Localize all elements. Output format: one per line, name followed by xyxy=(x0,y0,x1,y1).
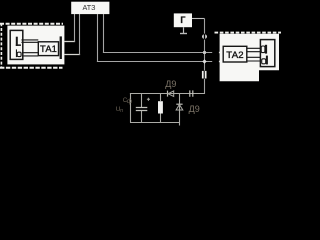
plus sign of Cf xyxy=(147,98,150,101)
wire pair microphone to TA1 box xyxy=(22,53,38,56)
diode D9 horizontal: triangle xyxy=(168,91,174,97)
G right lead xyxy=(192,18,205,20)
power tap circuit: bottom wire xyxy=(130,122,180,124)
microphone loop (TA2) xyxy=(262,59,266,64)
resistor top lead xyxy=(160,94,162,102)
svg-text:ф: ф xyxy=(127,98,132,105)
diode D9 vertical: cathode bar xyxy=(176,103,182,105)
microphone bar (TA1) xyxy=(16,49,17,57)
resistor (white box) xyxy=(158,101,163,113)
microphone loop (TA1) xyxy=(17,52,21,56)
handset symbol box (TA1) xyxy=(10,30,23,59)
telephone set TA1 white panel xyxy=(7,26,64,65)
line B horizontal xyxy=(97,61,212,63)
stub into TA2 upper xyxy=(221,52,224,54)
resistor bottom lead xyxy=(160,114,162,123)
diode D9 vertical: triangle xyxy=(176,105,183,111)
svg-text:Д9: Д9 xyxy=(189,104,200,114)
earpiece bar (TA1) xyxy=(16,37,18,46)
wire stub TA1 lower xyxy=(64,54,80,56)
fuse rectangle on bus xyxy=(202,71,207,79)
wire pair earpiece to TA1 box xyxy=(21,40,38,42)
earpiece bar (TA2) xyxy=(265,45,267,54)
wire 1 vertical xyxy=(74,14,76,42)
diode D9 vertical branch wire xyxy=(179,94,181,126)
wire nub at TA2 panel edge lower xyxy=(219,61,221,63)
node TA1 enclosure dashed marquee bottom xyxy=(0,67,63,69)
svg-text:Г: Г xyxy=(180,15,185,25)
node TA1 enclosure dashed marquee left xyxy=(0,23,2,68)
wire stub TA1 upper xyxy=(64,41,75,43)
telephone set TA2 white panel xyxy=(220,34,279,82)
spark gap on bus xyxy=(202,34,207,39)
plate bar right of TA1 xyxy=(60,36,62,59)
junction diamond B on bus xyxy=(202,59,206,63)
block G (generator) xyxy=(174,13,192,27)
block TA1 xyxy=(38,42,58,56)
svg-text:АТЗ: АТЗ xyxy=(83,3,96,12)
svg-text:п: п xyxy=(120,108,123,114)
power tap circuit: left vertical xyxy=(130,94,132,123)
handset symbol box (TA2) xyxy=(260,40,274,67)
stub into TA2 lower xyxy=(221,61,224,63)
svg-text:Д9: Д9 xyxy=(165,79,176,89)
capacitor Cf bottom lead xyxy=(141,111,143,123)
wire nub at TA2 panel edge upper xyxy=(219,52,221,54)
capacitor Cf plates xyxy=(136,108,148,111)
G bottom terminal lead xyxy=(183,27,185,33)
wire 4 vertical xyxy=(103,14,105,53)
earpiece loop (TA2) xyxy=(261,46,265,53)
series capacitor bars on top wire xyxy=(190,90,193,96)
wire 3 vertical xyxy=(97,14,99,62)
capacitor Cf top lead xyxy=(141,94,143,108)
node TA2 enclosure dashed marquee top xyxy=(215,32,282,34)
diode D9 horizontal: cathode bar xyxy=(167,91,169,97)
earpiece foot (TA1) xyxy=(16,44,21,46)
block TA2 xyxy=(223,46,247,62)
power tap circuit: top wire xyxy=(130,93,205,95)
vertical bus at x204 xyxy=(204,19,206,95)
block ATZ (exchange) xyxy=(71,2,109,14)
G bottom terminal bar xyxy=(180,33,187,35)
junction A on bus xyxy=(203,51,206,54)
line A horizontal xyxy=(103,52,212,54)
svg-text:ТА1: ТА1 xyxy=(40,43,57,54)
microphone bar (TA2) xyxy=(266,56,268,65)
node TA1 enclosure dashed marquee top xyxy=(0,23,63,25)
wire pairs TA2 box to handset xyxy=(247,48,261,61)
svg-text:ТА2: ТА2 xyxy=(226,50,243,61)
wire 2 vertical xyxy=(79,14,81,55)
